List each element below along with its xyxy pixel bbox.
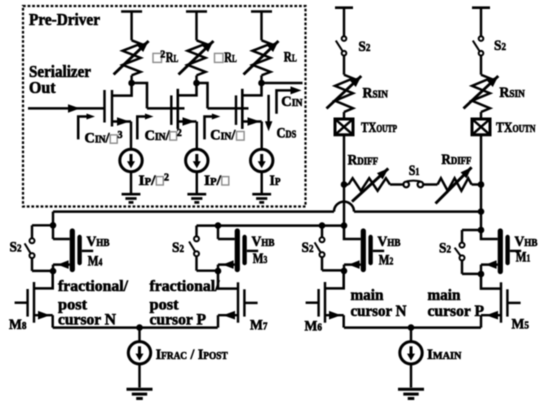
VDD bar stage 2 bbox=[186, 10, 207, 13]
svg-text:Pre-Driver: Pre-Driver bbox=[29, 10, 100, 29]
node branch2 top bbox=[215, 222, 222, 229]
node drain stage 1 bbox=[128, 80, 135, 87]
node branch4 top bbox=[478, 227, 485, 234]
svg-text:cursor P: cursor P bbox=[150, 312, 207, 329]
transistor M6 bbox=[325, 271, 344, 288]
wire tail rail left bbox=[53, 326, 218, 328]
switch S2 branch3 bbox=[321, 226, 323, 238]
svg-text:cursor N: cursor N bbox=[351, 303, 407, 320]
VDD bar TX left bbox=[335, 6, 353, 9]
transistor M7 bbox=[218, 271, 238, 289]
transistor M8 bbox=[34, 271, 53, 288]
svg-text:fractional/: fractional/ bbox=[58, 278, 129, 295]
svg-text:2: 2 bbox=[164, 173, 169, 184]
wire tail rail right bbox=[344, 326, 481, 328]
annotation CIN output bbox=[277, 90, 295, 113]
svg-text:3: 3 bbox=[118, 130, 123, 141]
variable resistor RSIN left bbox=[335, 75, 353, 112]
switch S2 branch2 bbox=[195, 226, 197, 237]
current source IP stage 3 bbox=[251, 149, 273, 171]
node TXOUTP RDIFF junction bbox=[341, 181, 348, 188]
transistor stage 3 with coupling cap bbox=[208, 107, 249, 109]
annotation CDS bbox=[267, 95, 269, 125]
switch S1 bbox=[403, 182, 409, 188]
capacitor device M2 VHB bbox=[344, 226, 361, 239]
svg-text:cursor N: cursor N bbox=[58, 312, 116, 329]
switch S2 TX left bbox=[342, 36, 347, 41]
node drain stage 2 bbox=[193, 80, 200, 87]
capacitor device M4 VHB bbox=[53, 238, 70, 241]
svg-text:cursor P: cursor P bbox=[428, 303, 485, 320]
variable resistor RDIFF left bbox=[344, 183, 349, 185]
node branch3 top bbox=[341, 222, 348, 229]
annotation CIN/a2 bbox=[137, 117, 148, 140]
label alpha^2 RL bbox=[153, 53, 162, 62]
pad TXOUTN bbox=[472, 119, 490, 135]
wire TXOUTN down bbox=[480, 135, 482, 185]
transistor M5 bbox=[481, 274, 501, 289]
current source IP/a stage 2 bbox=[186, 149, 208, 171]
wire cursor P / main N top rail bbox=[197, 224, 345, 226]
variable resistor RDIFF right bbox=[423, 183, 437, 185]
node branch4 bottom bbox=[478, 271, 485, 278]
pre-driver dashed box bbox=[23, 6, 306, 207]
capacitor device M3 VHB bbox=[217, 226, 219, 239]
wire stage3 output bbox=[262, 82, 303, 84]
VDD bar TX right bbox=[472, 6, 490, 9]
wire TXOUTP line down to node bbox=[343, 185, 345, 226]
current source IP/a2 stage 1 bbox=[120, 149, 142, 171]
node branch3 bottom bbox=[341, 268, 348, 275]
wire TXOUTP down bbox=[343, 135, 345, 185]
node branch2 bottom bbox=[215, 268, 222, 275]
node TXOUTN RDIFF junction bbox=[478, 181, 485, 188]
switch S2 branch4 bbox=[462, 229, 481, 231]
svg-text:fractional/: fractional/ bbox=[150, 278, 221, 295]
capacitor device M1 VHB bbox=[481, 230, 498, 239]
variable resistor load stage 1 bbox=[123, 40, 141, 75]
switch S2 TX right bbox=[479, 36, 484, 41]
VDD bar stage 1 bbox=[121, 10, 142, 13]
annotation CIN/a bbox=[205, 117, 216, 140]
svg-text:2: 2 bbox=[160, 50, 165, 61]
wire stage2 drain to stage3 gate bbox=[197, 83, 208, 108]
wire stage1 drain to stage2 gate bbox=[132, 83, 147, 108]
wire branch1 top bbox=[52, 212, 54, 239]
node drain stage 3 bbox=[258, 80, 265, 87]
pad TXOUTP bbox=[335, 119, 353, 135]
transistor stage 2 with coupling cap bbox=[147, 107, 185, 109]
variable resistor RSIN right bbox=[472, 75, 490, 112]
variable resistor load stage 2 bbox=[188, 40, 206, 75]
svg-text:2: 2 bbox=[177, 128, 182, 139]
switch S2 branch1 bbox=[32, 224, 53, 226]
ground stage 1 bbox=[130, 172, 132, 194]
node branch3 S2 stub bbox=[319, 222, 326, 229]
node TXOUTN junction bbox=[478, 208, 485, 215]
node tail left bbox=[136, 324, 143, 331]
transistor stage 1 bbox=[103, 90, 105, 123]
svg-text:main: main bbox=[351, 287, 384, 304]
annotation CIN/a3 bbox=[78, 117, 90, 140]
VDD bar stage 3 bbox=[251, 10, 272, 13]
svg-text:Out: Out bbox=[29, 78, 56, 97]
ground tail right bbox=[398, 388, 424, 391]
label alpha RL bbox=[215, 53, 224, 62]
current source IFRAC IPOST bbox=[138, 328, 140, 342]
variable resistor load stage 3 bbox=[253, 40, 271, 75]
svg-text:main: main bbox=[428, 287, 461, 304]
node tail right bbox=[408, 324, 415, 331]
ground stage 2 bbox=[196, 172, 198, 194]
current source IMAIN bbox=[410, 328, 412, 342]
wire serializer input with arrow bbox=[28, 107, 105, 109]
ground stage 3 bbox=[260, 172, 262, 194]
node branch1 bottom bbox=[50, 268, 57, 275]
ground tail left bbox=[127, 388, 153, 391]
node branch1 top bbox=[50, 222, 57, 229]
wire pre-driver output with hop over TXOUTP bbox=[53, 210, 334, 212]
